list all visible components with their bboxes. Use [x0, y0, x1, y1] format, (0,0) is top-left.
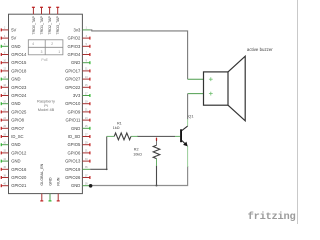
RPi pin 32 GPIO12 (left) [1, 150, 27, 155]
svg-text:ID_SD: ID_SD [68, 134, 80, 139]
RPi pin 33 GPIO13 (right) [65, 159, 90, 164]
svg-text:GPIO19: GPIO19 [65, 167, 81, 172]
svg-text:GPIO12: GPIO12 [11, 150, 27, 155]
svg-text:GPIO14: GPIO14 [11, 52, 27, 57]
RPi pin 2 5V (left) [1, 27, 17, 32]
RPi pin TRD3_TAP (top) [56, 7, 60, 35]
RPi pin 9 GND (right) [71, 60, 90, 65]
RPi pin 31 GPIO6 (right) [67, 150, 90, 155]
wire bendpoint [106, 168, 108, 170]
svg-text:fritzing: fritzing [248, 211, 296, 223]
RPi pin 27 ID_SD (right) [68, 134, 90, 139]
RPi pin 21 GPIO9 (right) [67, 109, 90, 114]
RPi pin 7 GPIO4 (right) [67, 52, 90, 57]
RPi pin 4 5V (left) [1, 36, 17, 41]
svg-text:ID_SC: ID_SC [11, 134, 23, 139]
R1 label [113, 121, 122, 130]
svg-text:GPIO22: GPIO22 [65, 85, 81, 90]
wire buzzer pin2 to Q1 collector (green part) [188, 93, 211, 95]
R2 label [133, 147, 142, 156]
RPi pin GLOBAL_EN (bottom) [40, 163, 44, 201]
junction at R2/ground rail [156, 185, 158, 187]
svg-text:1kΩ: 1kΩ [113, 126, 120, 130]
resistor R2 [153, 138, 160, 166]
svg-text:R1: R1 [117, 121, 122, 125]
wire GPIO19 riser to R1 [106, 136, 108, 169]
RPi pin 28 ID_SC (left) [1, 134, 24, 139]
svg-text:GPIO27: GPIO27 [65, 77, 81, 82]
RPi pin 6 GND (left) [1, 44, 21, 49]
svg-text:GPIO11: GPIO11 [65, 118, 80, 123]
RPi pin 13 GPIO27 (right) [65, 77, 90, 82]
RPi pin 18 GPIO24 (left) [1, 93, 27, 98]
RPi pin 8 GPIO14 (left) [1, 52, 27, 57]
RPi pin 11 GPIO17 (right) [65, 68, 90, 73]
RPi title label [37, 99, 55, 112]
RPi pin 36 GPIO16 (left) [1, 167, 27, 172]
svg-text:GPIO13: GPIO13 [65, 159, 81, 164]
svg-text:GND: GND [11, 159, 20, 164]
RPi pin 39 GND (right) [71, 183, 90, 188]
active buzzer LS1 (speaker symbol) [204, 56, 246, 121]
RPi pin 23 GPIO11 (right) [65, 118, 90, 123]
svg-text:GPIO5: GPIO5 [67, 142, 80, 147]
Raspberry Pi 4B body [9, 14, 83, 193]
RPi pin 5 GPIO3 (right) [67, 44, 90, 49]
RPi pin 40 GPIO21 (left) [1, 183, 27, 188]
svg-text:3v3: 3v3 [74, 27, 81, 32]
svg-text:GPIO18: GPIO18 [11, 68, 27, 73]
svg-text:GPIO6: GPIO6 [67, 150, 80, 155]
RPi pin 25 GND (right) [71, 126, 90, 131]
wire R2 bottom to ground rail [156, 166, 158, 186]
wire GPIO19 to R1 (horizontal) [90, 168, 107, 170]
svg-text:4: 4 [32, 42, 34, 46]
svg-text:GND: GND [11, 44, 20, 49]
svg-text:R2: R2 [134, 147, 139, 151]
svg-text:GND: GND [71, 60, 80, 65]
RPi pin 20 GND (left) [1, 101, 21, 106]
RPi pin 22 GPIO25 (left) [1, 109, 27, 114]
RPi pin TRD1_TAP (top) [40, 7, 44, 35]
RPi pin TRD0_TAP (top) [32, 7, 36, 35]
RPi pin 12 GPIO18 (left) [1, 68, 27, 73]
svg-text:GPIO10: GPIO10 [65, 101, 81, 106]
svg-text:RUN: RUN [57, 177, 61, 185]
svg-text:GPIO4: GPIO4 [67, 52, 80, 57]
svg-text:GPIO20: GPIO20 [11, 175, 27, 180]
svg-text:GPIO17: GPIO17 [65, 68, 81, 73]
svg-text:Q1: Q1 [188, 113, 193, 118]
RPi pin 24 GPIO8 (left) [1, 118, 25, 123]
svg-text:1: 1 [58, 50, 60, 54]
wire segment into buzzer pin1 (green) [188, 78, 211, 80]
svg-text:3V3: 3V3 [73, 93, 81, 98]
RPi pin 19 GPIO10 (right) [65, 101, 90, 106]
svg-text:GPIO2: GPIO2 [67, 36, 80, 41]
RPi pin 30 GND (left) [1, 142, 21, 147]
svg-text:GND: GND [48, 177, 52, 186]
svg-text:5V: 5V [11, 36, 16, 41]
svg-text:GPIO23: GPIO23 [11, 85, 27, 90]
svg-text:GPIO16: GPIO16 [11, 167, 27, 172]
svg-text:PoE: PoE [41, 58, 48, 62]
RPi pin 26 GPIO7 (left) [1, 126, 25, 131]
RPi pin 16 GPIO23 (left) [1, 85, 27, 90]
RPi pin 34 GND (left) [1, 159, 21, 164]
junction dot at GND pin [89, 184, 93, 188]
svg-text:3: 3 [41, 50, 43, 54]
svg-text:TRD2_TAP: TRD2_TAP [48, 15, 52, 34]
svg-text:TRD0_TAP: TRD0_TAP [32, 15, 36, 34]
svg-text:Model 4B: Model 4B [38, 107, 55, 112]
RPi pin 38 GPIO20 (left) [1, 175, 27, 180]
svg-text:GPIO25: GPIO25 [11, 109, 27, 114]
RPi pin 37 GPIO26 (right) [65, 175, 90, 180]
svg-text:GND: GND [11, 77, 20, 82]
svg-text:2: 2 [51, 42, 53, 46]
svg-text:GPIO3: GPIO3 [67, 44, 80, 49]
RPi pin 3 GPIO2 (right) [67, 36, 90, 41]
wire 3v3 to buzzer pin1 [90, 30, 187, 79]
RPi pin 1 3v3 (right) [74, 27, 91, 32]
svg-text:GPIO26: GPIO26 [65, 175, 81, 180]
svg-text:GND: GND [71, 126, 80, 131]
canvas right border line [297, 0, 299, 224]
RPi pin RUN (bottom) [57, 177, 61, 201]
svg-text:GPIO7: GPIO7 [11, 126, 24, 131]
transistor Q1 (NPN) [175, 126, 188, 146]
wire R1 right to Q1 base [137, 135, 175, 137]
svg-text:active buzzer: active buzzer [247, 47, 273, 52]
RPi pin 10 GPIO15 (left) [1, 60, 27, 65]
Q1 collector lead [187, 119, 189, 126]
wire buzzer pin2 vertical [187, 94, 189, 120]
svg-text:GPIO9: GPIO9 [67, 109, 80, 114]
resistor R1 [107, 133, 138, 140]
svg-text:GLOBAL_EN: GLOBAL_EN [40, 163, 44, 185]
Q1 emitter lead [187, 146, 189, 167]
RPi pin 17 3V3 (right) [73, 93, 90, 98]
svg-text:GND: GND [11, 101, 20, 106]
RPi pin GND (bottom) [48, 177, 52, 201]
svg-text:GPIO8: GPIO8 [11, 118, 24, 123]
svg-text:GND: GND [11, 142, 20, 147]
RPi pin 15 GPIO22 (right) [65, 85, 90, 90]
svg-text:GPIO15: GPIO15 [11, 60, 27, 65]
svg-text:10kΩ: 10kΩ [133, 152, 142, 156]
svg-text:GPIO24: GPIO24 [11, 93, 27, 98]
svg-text:TRD1_TAP: TRD1_TAP [40, 15, 44, 34]
svg-text:GPIO21: GPIO21 [11, 183, 27, 188]
RPi pin 29 GPIO5 (right) [67, 142, 90, 147]
svg-text:5V: 5V [11, 27, 16, 32]
svg-text:GND: GND [71, 183, 80, 188]
RPi pin 35 GPIO19 (right) [65, 167, 90, 172]
PoE header table [28, 40, 63, 62]
ground rail wire GND to emitter [90, 166, 187, 186]
RPi pin TRD2_TAP (top) [48, 7, 52, 35]
svg-text:TRD3_TAP: TRD3_TAP [56, 15, 60, 34]
RPi pin 14 GND (left) [1, 77, 21, 82]
